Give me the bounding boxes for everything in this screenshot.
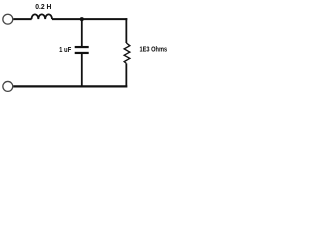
node (junction dot at capacitor top) — [80, 17, 84, 21]
terminal (top input port) — [3, 14, 13, 24]
wire (bottom, terminal to resistor corner) — [13, 85, 127, 87]
svg-text:1E3 Ohms: 1E3 Ohms — [140, 45, 168, 54]
inductor L1 0.2 H — [32, 14, 53, 19]
capacitor C1 top plate — [75, 46, 89, 48]
capacitor C1 bottom plate — [75, 52, 89, 54]
wire (right vertical, resistor down to bottom wire) — [125, 63, 127, 87]
resistor R1 zigzag — [124, 43, 130, 63]
wire (right vertical, top wire down to resistor) — [125, 18, 127, 43]
svg-text:1 uF: 1 uF — [59, 45, 72, 54]
wire (capacitor top lead) — [81, 19, 83, 46]
terminal (bottom input port) — [3, 81, 13, 91]
wire (capacitor bottom lead) — [81, 54, 83, 87]
wire (top, terminal to inductor) — [13, 18, 31, 20]
wire (top, inductor to resistor corner) — [52, 18, 127, 20]
svg-text:0.2 H: 0.2 H — [35, 2, 51, 11]
